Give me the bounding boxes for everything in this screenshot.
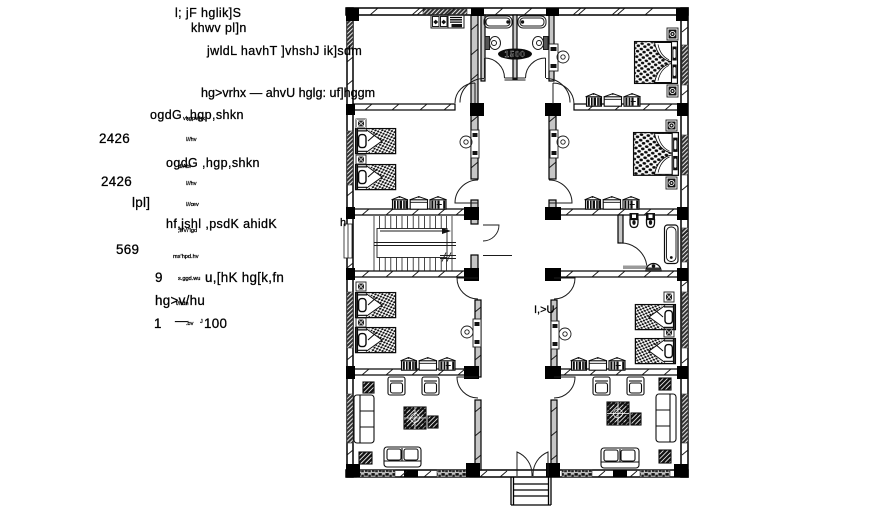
svg-text:I//hv: I//hv [186,137,197,143]
svg-text:jwldL havhT ]vhshJ ik]sdm: jwldL havhT ]vhshJ ik]sdm [206,44,362,58]
svg-text:100: 100 [204,316,227,331]
svg-text:1: 1 [154,316,162,331]
svg-text:h: h [340,217,346,229]
svg-text:msʼhpd.hv: msʼhpd.hv [173,254,199,260]
svg-text:569: 569 [116,242,139,257]
svg-text:2426: 2426 [99,131,130,146]
svg-text:lpl]: lpl] [132,195,150,210]
svg-text:d/Abl: d/Abl [178,164,191,170]
svg-text:I,>U: I,>U [534,304,555,316]
svg-text:9: 9 [155,270,163,285]
svg-text:t/hdn: t/hdn [176,301,188,307]
svg-text:I//œv: I//œv [186,202,199,208]
svg-text:hg>vrhx — ahvU hglg: uf]hggm: hg>vrhx — ahvU hglg: uf]hggm [201,86,375,100]
svg-text:vhgpwhk: vhgpwhk [183,116,205,122]
svg-text:l; jF hglik]S: l; jF hglik]S [175,6,241,20]
svg-text:s.ggd.wu: s.ggd.wu [178,276,200,282]
svg-text:u,[hK hg[k,fn: u,[hK hg[k,fn [205,270,284,285]
svg-text:.bv: .bv [186,321,194,327]
svg-text:2426: 2426 [101,174,132,189]
svg-text:I//hv: I//hv [186,181,197,187]
svg-text:1500: 1500 [505,50,526,59]
svg-text:khwv pl]n: khwv pl]n [191,21,247,35]
svg-text:J: J [200,319,203,325]
svg-text:;BV/'lgd: ;BV/'lgd [178,228,197,234]
